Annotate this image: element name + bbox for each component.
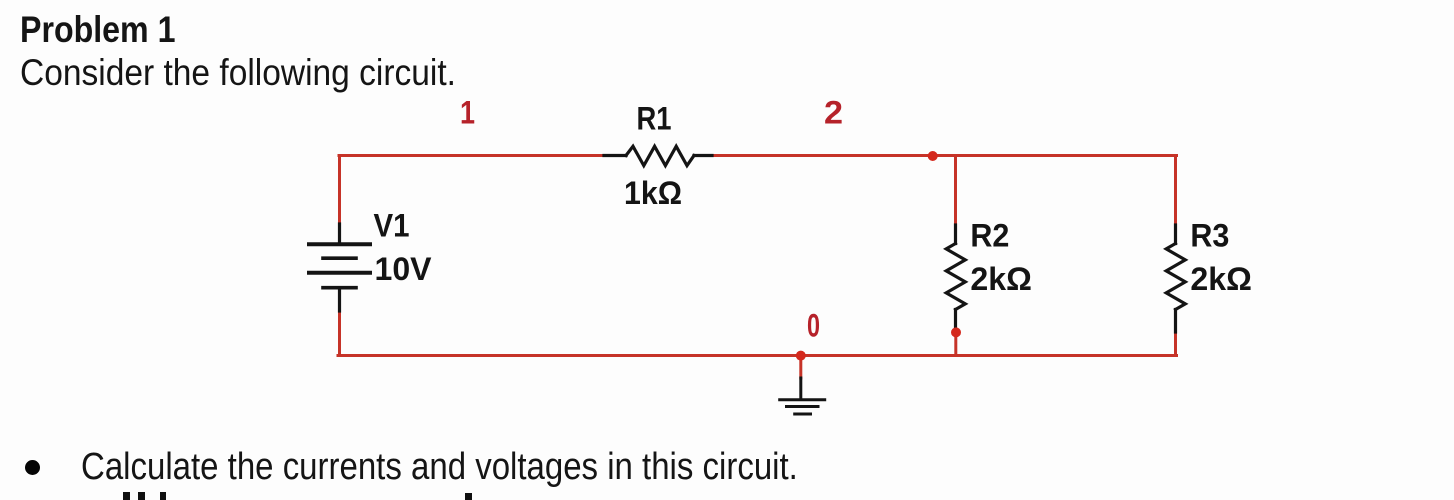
wire: R2 branch upper (node 2 to R2): [954, 156, 957, 226]
junction dot node 2: [928, 151, 938, 161]
svg-text:10V: 10V: [375, 251, 433, 287]
ground symbol: [780, 378, 825, 414]
bullet text: Calculate the currents and voltages in this circuit.: [81, 446, 798, 489]
svg-text:2: 2: [824, 94, 843, 130]
wire: left vertical upper (node 1 to V1): [338, 156, 341, 225]
svg-text:R2: R2: [970, 218, 1009, 254]
wire: top-right horizontal segment (node 2): [711, 154, 1177, 157]
heading: Problem 1: [20, 9, 175, 51]
svg-text:1kΩ: 1kΩ: [624, 175, 682, 211]
bullet marker: [25, 460, 40, 475]
wire: right vertical upper (node 2 to R3): [1174, 156, 1177, 226]
wire: left vertical lower (V1 to bottom): [338, 311, 341, 356]
resistor R1 (horizontal, black leads + zigzag): [604, 146, 712, 165]
svg-text:2kΩ: 2kΩ: [970, 261, 1032, 297]
wire: ground stem red: [799, 356, 802, 379]
battery V1 (DC source symbol): [309, 224, 370, 311]
resistor R2 (vertical, black leads + zigzag): [946, 225, 965, 327]
wire: top-left horizontal segment (node 1): [339, 154, 605, 157]
cut-off second bullet line (ascender tops at bottom edge): [123, 492, 130, 500]
resistor R3 (vertical, black leads + zigzag): [1166, 225, 1185, 332]
wire: bottom horizontal (node 0): [338, 354, 1177, 357]
junction dot R2 bottom: [951, 327, 961, 337]
svg-text:0: 0: [807, 308, 820, 344]
wire: R2 branch lower (R2 to bottom): [954, 336, 957, 356]
svg-text:R1: R1: [637, 101, 672, 137]
svg-text:V1: V1: [374, 208, 410, 244]
junction dot node 0 / ground: [796, 351, 806, 361]
paragraph: Consider the following circuit.: [20, 52, 456, 94]
svg-text:2kΩ: 2kΩ: [1190, 261, 1252, 297]
svg-text:1: 1: [460, 94, 475, 130]
wire: right vertical lower (R3 to bottom): [1174, 332, 1177, 356]
svg-text:R3: R3: [1190, 218, 1229, 254]
